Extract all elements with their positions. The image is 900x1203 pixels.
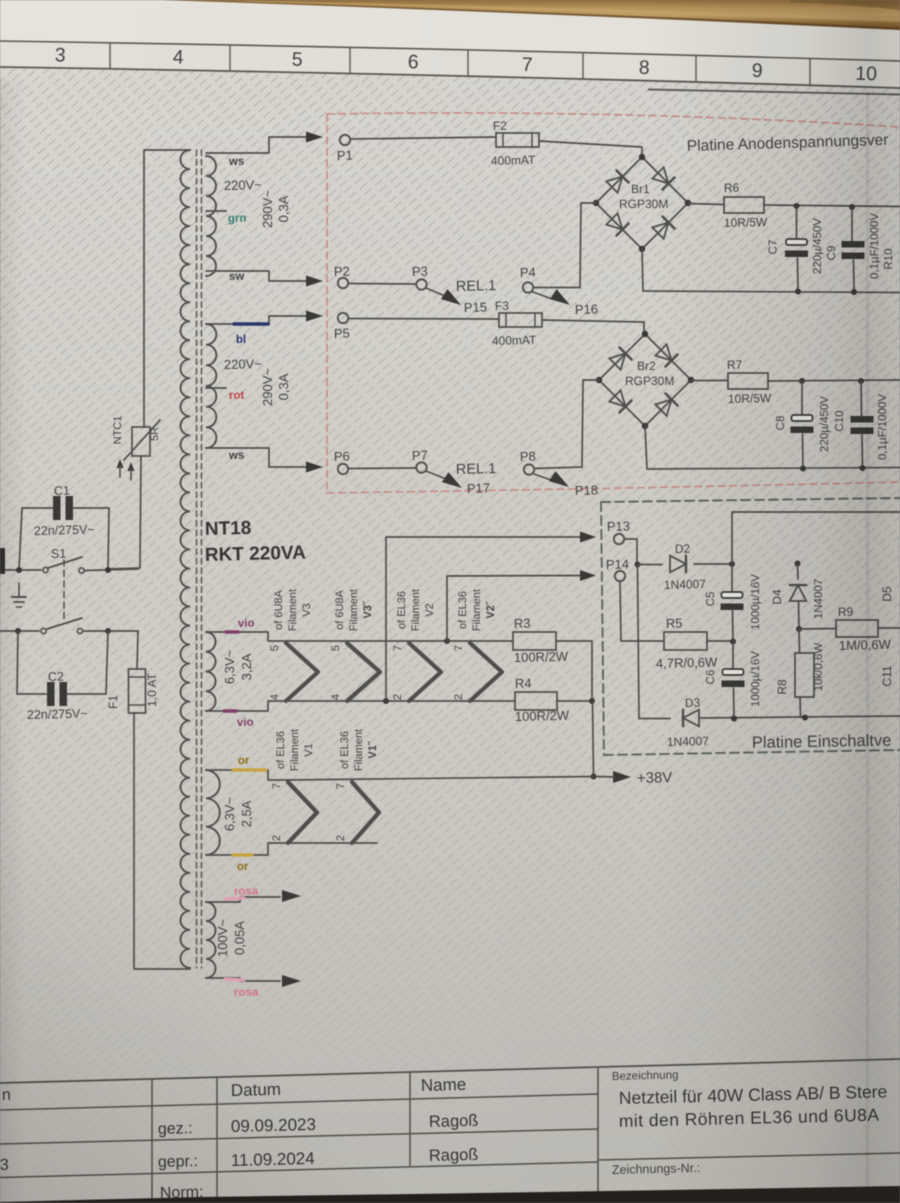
label S1 <box>51 547 67 561</box>
secondary winding 290V (upper) <box>206 156 216 276</box>
labels filament V1b <box>339 729 379 771</box>
node C10 top <box>858 378 864 384</box>
lead or upper <box>206 755 288 780</box>
capacitor C8 <box>775 381 831 469</box>
diode D2 <box>664 542 707 592</box>
wire junction down to D3 <box>638 565 671 719</box>
tap rot <box>206 388 245 402</box>
vertical label 100V 0.05A <box>215 919 247 957</box>
wire Br1 to R6 <box>688 204 724 205</box>
arrow +38V <box>613 771 631 783</box>
wire C2 right <box>67 631 108 694</box>
resistor R4 <box>515 676 570 724</box>
wire primary bottom to F1 <box>134 713 190 969</box>
filament V1 <box>288 782 317 843</box>
node P14 junction <box>635 562 641 568</box>
label P16 <box>575 301 599 317</box>
Br2 negative rail <box>645 426 900 469</box>
wire P14 feed <box>447 576 580 642</box>
terminal P13 <box>607 518 631 544</box>
label D5 <box>880 586 894 602</box>
wire node to R8 <box>798 629 801 653</box>
label REL.1 upper <box>456 278 497 295</box>
arrow to P2 <box>306 276 323 287</box>
fuse F3 <box>492 299 542 348</box>
arrow to P5 <box>306 311 323 322</box>
ruler band with column numbers 3-10 <box>0 41 900 88</box>
vertical label 6.3V 3.2A <box>222 649 254 684</box>
heater rail 2 bottom <box>288 842 377 844</box>
wire C2 left <box>17 631 46 694</box>
wire R9 right <box>878 627 900 629</box>
secondary winding 6.3V 2.5A <box>206 770 220 855</box>
label REL.1 lower <box>456 461 497 478</box>
capacitor C1 <box>34 484 95 538</box>
arrow rosa lower <box>282 975 301 987</box>
resistor R5 <box>656 616 718 671</box>
node D4 top <box>795 561 801 567</box>
arrow P15 <box>441 289 461 305</box>
label 220V~ lower <box>224 356 263 372</box>
wire S1 to F1 <box>137 631 138 669</box>
wire Br2 to R7 <box>691 380 728 382</box>
wire P13 hook <box>625 539 638 564</box>
labels filament V3˝ <box>334 589 374 631</box>
wire F1 down <box>134 712 137 714</box>
diode D3 <box>667 696 710 749</box>
label R10 <box>883 248 895 269</box>
pin labels V2 <box>392 645 404 700</box>
node C8 top <box>799 378 805 384</box>
wire P2-P3 <box>348 283 416 286</box>
arrow to P13 <box>580 532 596 543</box>
NTC arrows <box>117 459 135 480</box>
capacitor C10 <box>834 381 889 468</box>
left edge shade <box>0 0 1 1</box>
resistor R9 horizontal <box>836 605 892 653</box>
wire R4 right <box>557 700 592 702</box>
wire primary top to NTC <box>144 150 190 427</box>
wire F3 to Br2 <box>542 320 644 334</box>
tap grn <box>206 211 247 225</box>
bridge rectifier Br2 <box>596 331 694 429</box>
capacitor C2 <box>27 670 88 722</box>
node S1 pole1 right <box>105 567 111 573</box>
terminal P5 <box>334 313 350 341</box>
label 220V~ upper <box>224 177 263 193</box>
wire P7 to P17 arrow <box>426 471 446 479</box>
labels filament V3 <box>273 589 313 631</box>
terminal P2 <box>334 264 350 289</box>
terminal P7 <box>412 448 428 473</box>
arrow rosa upper <box>282 890 301 902</box>
fuse F2 <box>491 119 539 168</box>
wire P4 to P16 arrow <box>533 292 552 299</box>
lead sw <box>206 271 306 283</box>
node S1 pole2 right <box>105 628 111 634</box>
terminal P4 <box>520 265 536 293</box>
wire C1 left <box>19 508 53 570</box>
wire node to arrow <box>597 776 614 779</box>
arrow P16 <box>550 289 570 305</box>
node C8 bottom <box>800 466 806 472</box>
capacitor C9 <box>826 207 881 292</box>
red dashed outline Platine Anodenspannungsversorgung <box>327 113 900 493</box>
lead vio lower <box>206 701 286 729</box>
node 38V rail <box>591 774 597 780</box>
label Br1 <box>631 182 650 196</box>
secondary winding 290V (lower) <box>206 324 216 448</box>
wire P6-P7 <box>348 467 416 470</box>
capacitor C5 <box>705 564 762 641</box>
wire P13 feed <box>386 537 580 701</box>
wire node up and right (top rail) <box>732 512 900 564</box>
wire R5 to node <box>707 640 733 642</box>
secondary winding 100V <box>206 902 216 978</box>
wire P3 to P15 arrow <box>426 288 445 296</box>
lead ws lower <box>206 448 306 467</box>
wire D4 to node <box>798 601 801 629</box>
lead ws upper <box>206 137 306 168</box>
label RGP30M Br1 <box>619 197 668 211</box>
switch S1 pole 2 <box>0 618 138 634</box>
label NT18 <box>205 518 252 540</box>
wire F2 to Br1 <box>539 141 642 158</box>
bridge rectifier Br1 <box>593 154 691 252</box>
sheet frame line (top right) <box>648 90 900 95</box>
node C6 bottom <box>731 716 737 722</box>
arrow P17 <box>442 472 462 488</box>
terminal P6 <box>334 449 350 475</box>
label P17 <box>467 480 491 496</box>
thermistor NTC1 <box>112 416 161 460</box>
heater rail 2 top (+38V rail) <box>288 777 594 781</box>
node C9 top <box>849 204 855 210</box>
fuse F1 <box>106 669 159 713</box>
filament V3b <box>347 643 380 701</box>
pin labels V3b <box>330 645 342 700</box>
pin labels V1b <box>335 783 347 841</box>
arrow to P6 <box>306 462 323 473</box>
bottom-left shadow <box>0 600 450 1203</box>
switch link dashed <box>63 560 65 622</box>
title block <box>0 1059 900 1203</box>
terminal P14 <box>606 556 630 581</box>
node D4/R8/R9 <box>796 626 802 632</box>
label C11 <box>880 665 894 686</box>
transformer T1 primary winding <box>180 150 190 968</box>
label Platine Anodenspannungsversorgung <box>687 132 889 155</box>
terminal P1 <box>337 135 353 163</box>
node S1 pole1 left <box>16 567 22 573</box>
labels filament V1 <box>275 729 315 771</box>
terminal P8 <box>520 449 536 475</box>
lead rosa lower <box>206 978 280 999</box>
resistor R8 vertical <box>775 643 825 697</box>
label Br2 <box>637 359 656 373</box>
secondary winding 6.3V 3.2A <box>206 632 216 711</box>
wire P1 to F2 <box>350 137 496 139</box>
terminal P3 <box>412 264 428 290</box>
green bottom rail <box>700 716 900 718</box>
node R4 junction <box>589 698 595 704</box>
node R8 bottom <box>802 715 808 721</box>
Br1 negative rail <box>642 249 900 293</box>
pin labels V1 <box>271 783 283 841</box>
wire R8 down <box>799 697 802 718</box>
vertical label 290V 0.3A lower <box>260 368 291 406</box>
filament V3 <box>286 643 318 701</box>
lead rosa upper <box>206 885 280 902</box>
transformer core <box>197 150 202 968</box>
wire P4 to Br1 <box>534 203 597 288</box>
wire P5 to F3 <box>348 318 499 321</box>
wire NTC to switch <box>109 456 141 569</box>
node C9 bottom <box>851 289 857 295</box>
node heater bottom x386 <box>383 698 389 704</box>
wire to 38V rail <box>593 701 594 776</box>
resistor R6 <box>724 181 768 230</box>
label Platine Einschaltverzoegerung <box>752 732 892 752</box>
wire D4 top <box>797 564 800 580</box>
vertical label 6.3V 2.5A <box>222 796 254 831</box>
arrow P18 <box>549 471 569 487</box>
labels filament V2 <box>396 589 436 631</box>
node C5/C6 <box>730 639 736 645</box>
node C10 bottom <box>860 465 866 471</box>
filament V2 <box>409 643 441 701</box>
arrow to P1 <box>306 132 323 143</box>
node S1 pole2 left <box>15 628 21 634</box>
heater rail 6.3V bottom <box>286 700 515 702</box>
node C7 top <box>794 203 800 209</box>
resistor R3 <box>513 616 569 665</box>
arrow to P14 <box>580 570 596 581</box>
pin labels V2b <box>453 645 465 700</box>
node D2 out <box>729 561 735 567</box>
filament V1b <box>352 782 379 843</box>
node C7 bottom <box>795 289 801 295</box>
pin labels V3 <box>269 645 281 700</box>
filament V2b <box>470 643 502 701</box>
wire node to R9 <box>799 628 836 631</box>
wire C1 right <box>73 508 109 570</box>
wire D2 to node <box>694 563 732 565</box>
connector stub left edge <box>0 548 5 574</box>
wire junction to D2 <box>638 564 663 566</box>
labels filament V2˝ <box>457 589 497 631</box>
resistor R7 <box>727 358 772 406</box>
wire R7 to rail <box>768 380 900 381</box>
wire R3 right <box>556 641 592 701</box>
label P15 <box>464 299 488 315</box>
label RKT 220VA <box>205 543 307 566</box>
dark table edge bottom <box>0 1186 900 1203</box>
label +38V <box>637 769 673 787</box>
heater rail 6.3V top <box>286 640 513 642</box>
capacitor C6 <box>705 641 762 719</box>
wire R6 to rail <box>764 205 900 207</box>
diode D4 <box>770 579 825 619</box>
wire P14 down to R5 <box>620 582 664 642</box>
wire P8 to P18 arrow <box>534 474 551 480</box>
label P18 <box>575 482 599 498</box>
green dashed outline Platine Einschaltverzoegerung <box>601 498 900 755</box>
switch S1 pole 1 <box>0 557 138 573</box>
lead or lower <box>206 843 288 873</box>
wood table edge <box>163 0 900 30</box>
wire P8 to Br2 <box>535 380 600 469</box>
vertical label 290V 0.3A upper <box>260 190 291 228</box>
lead bl <box>206 316 306 346</box>
earth ground <box>12 583 26 607</box>
capacitor C7 <box>768 206 825 291</box>
node heater V2 pin7 <box>444 638 450 644</box>
lead vio upper <box>206 618 286 641</box>
label RGP30M Br2 <box>625 374 674 388</box>
